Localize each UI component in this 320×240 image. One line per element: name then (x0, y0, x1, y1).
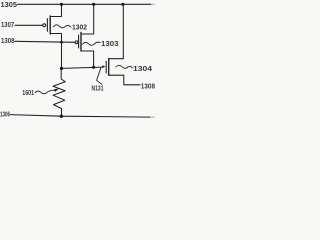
svg-text:1303: 1303 (101, 39, 119, 48)
svg-text:1306: 1306 (0, 110, 10, 119)
svg-text:1307: 1307 (1, 20, 14, 29)
svg-text:1305: 1305 (1, 0, 18, 9)
svg-text:1308: 1308 (141, 81, 155, 90)
svg-text:1601: 1601 (22, 88, 34, 97)
svg-text:N131: N131 (92, 83, 104, 92)
svg-text:1302: 1302 (72, 23, 87, 32)
svg-text:1308: 1308 (1, 36, 15, 45)
svg-text:1304: 1304 (133, 64, 153, 73)
